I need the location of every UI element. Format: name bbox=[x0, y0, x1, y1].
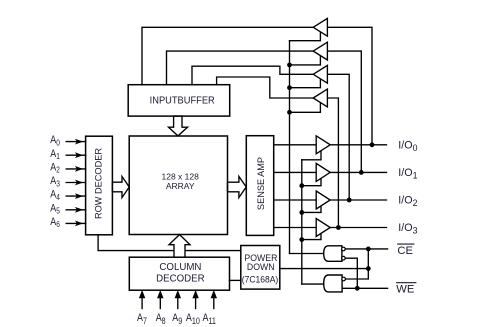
open arrow array to sense amp bbox=[228, 176, 247, 197]
wire U6 input to I/O3 bbox=[327, 98, 338, 228]
arrowhead A9 bbox=[175, 290, 181, 298]
junction dot U5 enable bbox=[287, 85, 292, 90]
svg-text:DECODER: DECODER bbox=[156, 273, 204, 284]
wire U10 enable stub bbox=[302, 233, 321, 239]
wire column decoder to power down bbox=[230, 279, 241, 281]
power down box U2 bbox=[241, 246, 280, 290]
and gate G1 bbox=[324, 246, 342, 261]
G1 input bubble CE bbox=[342, 247, 346, 251]
wire WE to G1 input bbox=[345, 258, 357, 288]
junction dot I/O0 bbox=[370, 142, 375, 147]
open arrow column decoder to array bbox=[169, 235, 190, 258]
svg-text:DOWN: DOWN bbox=[247, 261, 275, 271]
wire CE line bbox=[345, 248, 387, 250]
svg-text:WE: WE bbox=[396, 284, 414, 296]
wire row decoder to power down bbox=[98, 235, 241, 251]
arrowhead A1 bbox=[75, 152, 83, 158]
output buffer triangle U10 bbox=[316, 219, 330, 237]
wire output enable net vertical bbox=[301, 160, 303, 284]
wire input buffer line 4 bbox=[217, 77, 314, 98]
G2 input bubble CE bbox=[342, 277, 346, 281]
wire sense amp to output buffer row 2 bbox=[274, 199, 317, 201]
sense amp box bbox=[246, 136, 273, 236]
svg-text:INPUTBUFFER: INPUTBUFFER bbox=[150, 95, 215, 106]
wire U5 enable stub bbox=[290, 79, 321, 88]
arrowhead A0 bbox=[75, 139, 83, 145]
wire power down output bbox=[280, 268, 369, 270]
wire U3 input to I/O0 bbox=[327, 27, 372, 145]
wire A0 input bbox=[66, 141, 85, 143]
input buffer triangle U3 bbox=[313, 18, 327, 36]
svg-text:(7C168A): (7C168A) bbox=[242, 274, 279, 285]
input buffer triangle U6 bbox=[313, 89, 327, 107]
arrowhead A10 bbox=[192, 290, 198, 298]
wire I/O1 line bbox=[330, 171, 386, 173]
wire I/O3 line bbox=[330, 227, 386, 229]
junction dot I/O1 bbox=[359, 170, 364, 175]
open arrow input buffer to array bbox=[169, 116, 188, 136]
wire sense amp to output buffer row 1 bbox=[274, 171, 317, 173]
wire U9 enable stub bbox=[302, 206, 321, 213]
arrowhead A3 bbox=[75, 180, 83, 186]
wire A10 input bbox=[195, 297, 197, 308]
wire sense amp to output buffer row 3 bbox=[274, 227, 317, 229]
WE overbar bbox=[396, 282, 416, 284]
junction dot U8 enable bbox=[299, 183, 304, 188]
junction dot CE bbox=[366, 247, 371, 252]
arrowhead A11 bbox=[211, 290, 217, 298]
wire CE to G2 input bbox=[345, 249, 368, 279]
and gate G2 bbox=[324, 275, 342, 292]
junction dot U9 enable bbox=[299, 210, 304, 215]
svg-text:CE: CE bbox=[397, 245, 413, 257]
wire U8 enable stub bbox=[302, 178, 321, 185]
wire gate G1 output to write enable net bbox=[290, 253, 324, 255]
array box bbox=[129, 136, 227, 235]
open arrow row decoder to array bbox=[112, 176, 129, 197]
wire A2 input bbox=[66, 168, 85, 170]
CE overbar bbox=[397, 243, 414, 245]
svg-text:SENSE AMP: SENSE AMP bbox=[256, 157, 266, 210]
wire input buffer line 3 bbox=[192, 66, 313, 85]
arrowhead A6 bbox=[75, 221, 83, 227]
wire A11 input bbox=[213, 297, 215, 308]
wire input buffer line 1 bbox=[142, 27, 313, 84]
wire input buffer line 2 bbox=[167, 51, 314, 85]
wire write enable net vertical bbox=[289, 41, 291, 254]
junction dot power down CE bbox=[366, 266, 371, 271]
wire A7 input bbox=[141, 297, 143, 308]
wire WE line bbox=[342, 287, 388, 289]
output buffer triangle U8 bbox=[316, 163, 330, 181]
junction dot U6 enable bbox=[287, 110, 292, 115]
wire U6 enable stub bbox=[290, 103, 321, 113]
wire U4 enable stub bbox=[290, 56, 321, 65]
output buffer triangle U9 bbox=[316, 191, 330, 209]
junction dot WE bbox=[355, 286, 360, 291]
junction dot I/O3 bbox=[336, 225, 341, 230]
junction dot I/O2 bbox=[347, 198, 352, 203]
wire U3 enable stub bbox=[290, 32, 321, 41]
arrowhead A2 bbox=[75, 166, 83, 172]
input buffer triangle U5 bbox=[313, 65, 327, 83]
svg-text:ARRAY: ARRAY bbox=[166, 181, 195, 191]
input buffer triangle U4 bbox=[313, 42, 327, 60]
wire U4 input to I/O1 bbox=[327, 51, 361, 172]
wire U7 enable stub bbox=[302, 151, 321, 160]
junction dot U4 enable bbox=[287, 63, 292, 68]
junction dot U10 enable bbox=[299, 237, 304, 242]
column decoder box bbox=[129, 257, 229, 290]
wire A3 input bbox=[66, 182, 85, 184]
wire gate G2 output to output enable net bbox=[302, 283, 324, 285]
arrowhead A4 bbox=[75, 193, 83, 199]
input buffer box bbox=[128, 85, 230, 116]
wire A8 input bbox=[159, 297, 161, 308]
wire A6 input bbox=[66, 222, 85, 224]
wire I/O0 line bbox=[330, 144, 386, 146]
wire U5 input to I/O2 bbox=[327, 74, 349, 200]
wire sense amp to output buffer row 0 bbox=[274, 144, 317, 146]
svg-text:ROW DECODER: ROW DECODER bbox=[94, 148, 104, 219]
wire I/O2 line bbox=[330, 199, 386, 201]
wire A9 input bbox=[177, 297, 179, 308]
wire A1 input bbox=[66, 154, 85, 156]
arrowhead A5 bbox=[75, 207, 83, 213]
svg-text:COLUMN: COLUMN bbox=[159, 262, 201, 273]
arrowhead A8 bbox=[157, 290, 163, 298]
wire A5 input bbox=[66, 209, 85, 211]
G1 input bubble WE bbox=[342, 256, 346, 260]
arrowhead A7 bbox=[139, 290, 145, 298]
wire A4 input bbox=[66, 195, 85, 197]
row decoder box bbox=[86, 136, 113, 235]
output buffer triangle U7 bbox=[316, 136, 330, 154]
